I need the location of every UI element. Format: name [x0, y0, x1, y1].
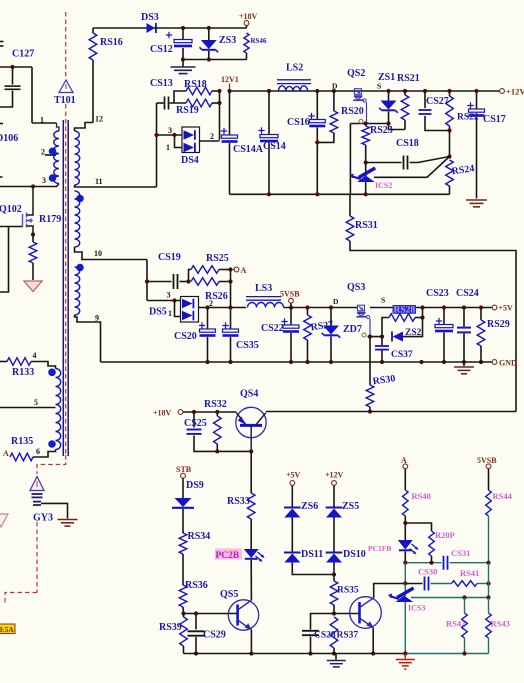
node junction [486, 595, 490, 599]
capacitor CS14A [221, 91, 264, 194]
capacitor CS27 [419, 91, 450, 131]
wire ref ICS3 [411, 597, 489, 599]
capacitor CS23 [426, 288, 453, 362]
capacitor CS37 [375, 337, 413, 362]
ground [466, 200, 487, 207]
svg-text:CS29: CS29 [203, 630, 226, 641]
resistor RS20 [317, 91, 363, 142]
isolation dashed [37, 455, 66, 474]
capacitor CS25 [184, 412, 251, 451]
svg-text:RS34: RS34 [188, 531, 211, 542]
node junction [368, 409, 372, 413]
svg-text:CS37: CS37 [391, 350, 413, 360]
capacitor C127 [0, 49, 34, 108]
capacitor CS29 [184, 614, 238, 654]
svg-text:T101: T101 [54, 95, 76, 106]
node junction [364, 192, 368, 196]
resistor RS46 [244, 33, 267, 60]
svg-text:CS24: CS24 [456, 288, 479, 299]
capacitor CS22 [261, 308, 299, 363]
pin 11 wire [75, 177, 157, 187]
svg-text:RS23: RS23 [370, 125, 393, 136]
node junction [194, 651, 198, 655]
svg-text:STB: STB [176, 465, 192, 474]
secondary winding 10-9 [75, 267, 80, 315]
svg-text:CS17: CS17 [483, 114, 506, 125]
wire collector run [266, 411, 516, 413]
resistor RS37 [330, 617, 358, 654]
node junction [228, 360, 232, 364]
wire [404, 563, 406, 584]
shunt reg ICS2 [350, 163, 393, 195]
svg-text:ICS2: ICS2 [375, 181, 392, 190]
svg-text:+18V: +18V [239, 12, 258, 21]
svg-text:+12V: +12V [506, 87, 524, 97]
label 12V1 [221, 75, 239, 91]
node junction [462, 360, 466, 364]
resistor R133 [0, 358, 34, 378]
winding dot [76, 195, 84, 203]
node junction [228, 305, 232, 309]
terminal +18V [153, 409, 237, 418]
svg-text:S: S [381, 296, 385, 305]
wire pin10 drop [146, 260, 148, 301]
node junction [267, 192, 271, 196]
node junction [447, 154, 451, 158]
wire [405, 562, 441, 564]
svg-text:R133: R133 [12, 367, 34, 378]
svg-text:RS20: RS20 [341, 106, 364, 117]
node junction [31, 184, 35, 188]
svg-text:DS9: DS9 [186, 480, 204, 491]
node junction [442, 305, 446, 309]
node junction [305, 305, 309, 309]
node junction [462, 595, 466, 599]
node junction [289, 360, 293, 364]
diode DS11 [284, 518, 334, 575]
pin 6 wire [33, 447, 56, 457]
svg-text:LS2: LS2 [286, 63, 303, 74]
svg-text:0.5A: 0.5A [0, 625, 14, 634]
diode DS5 [147, 291, 199, 323]
svg-text:11: 11 [95, 177, 103, 186]
capacitor CS18 [366, 138, 450, 170]
resistor RS19 [170, 99, 220, 116]
resistor RS24 [446, 160, 475, 194]
svg-text:D106: D106 [0, 133, 18, 144]
svg-text:ZS3: ZS3 [219, 35, 236, 46]
svg-text:RS36: RS36 [185, 580, 208, 591]
svg-text:2: 2 [210, 132, 214, 141]
wire gate QS3 [369, 319, 371, 337]
svg-text:12V1: 12V1 [221, 75, 239, 84]
node junction [172, 133, 176, 137]
wire G node [350, 123, 388, 125]
capacitor CS28 [302, 614, 336, 654]
terminal STB [176, 465, 192, 478]
node junction [368, 335, 372, 339]
svg-text:RS29: RS29 [487, 319, 510, 330]
resistor RS32 [204, 399, 227, 451]
svg-text:5VSB: 5VSB [280, 290, 300, 299]
primary ground partial [0, 514, 8, 527]
diode DS10 [326, 518, 366, 575]
diode DS3 [141, 12, 159, 33]
resistor RS42 [446, 598, 467, 654]
isolation dashed line core [65, 104, 67, 455]
svg-text:CS19: CS19 [158, 252, 181, 263]
svg-text:PC1FB: PC1FB [368, 544, 391, 553]
svg-text:CS23: CS23 [426, 288, 449, 299]
inductor LS2 [277, 63, 311, 92]
node junction [267, 89, 271, 93]
svg-text:LS3: LS3 [255, 283, 272, 294]
resistor RS26 [191, 270, 231, 303]
svg-text:2: 2 [209, 299, 213, 308]
node junction [154, 133, 158, 137]
node junction [479, 305, 483, 309]
svg-text:RS24: RS24 [451, 163, 475, 177]
ground [171, 60, 196, 74]
svg-text:RS22: RS22 [457, 113, 479, 123]
node junction [486, 561, 490, 565]
node junction [31, 232, 35, 236]
fuse label 0.5A [0, 624, 15, 634]
svg-text:CS25: CS25 [184, 418, 207, 429]
node junction [386, 121, 390, 125]
wire +5V rail [370, 307, 495, 309]
primary ground [24, 281, 42, 292]
transistor QS5 [220, 589, 259, 630]
zener ZD7 [322, 308, 362, 363]
wire gnd rail 5V [101, 361, 495, 363]
node junction [474, 89, 478, 93]
node junction [205, 305, 209, 309]
isolation dashed [36, 522, 38, 593]
resistor RS16 [89, 28, 123, 123]
svg-text:DS11: DS11 [301, 549, 323, 560]
wire [230, 282, 232, 308]
svg-text:CS35: CS35 [236, 340, 259, 351]
svg-text:A: A [241, 266, 247, 275]
wire [154, 27, 247, 29]
resistor RS40 [403, 469, 431, 540]
wire stub [0, 123, 3, 125]
terminal A [401, 456, 408, 469]
node junction [332, 89, 336, 93]
svg-text:RS35: RS35 [337, 586, 359, 596]
node junction [207, 57, 211, 61]
terminal A [233, 266, 247, 275]
terminal +18V [239, 12, 258, 28]
resistor RS34 [179, 531, 210, 585]
svg-text:3: 3 [167, 291, 171, 300]
diode DS9 [172, 478, 204, 533]
node junction [186, 279, 190, 283]
node junction [420, 315, 424, 319]
svg-text:Q102: Q102 [0, 204, 22, 215]
pin 12 wire [75, 115, 104, 132]
resistor RS23 [362, 124, 393, 163]
capacitor CS35 [222, 308, 258, 363]
zener ZS3 [200, 28, 237, 60]
ground [327, 654, 346, 667]
capacitor CS24 [456, 288, 479, 362]
terminal G [362, 333, 366, 337]
svg-text:C127: C127 [12, 49, 34, 60]
pin 4 wire [31, 351, 56, 369]
svg-text:RS28: RS28 [394, 305, 416, 315]
node junction [403, 521, 407, 525]
svg-text:4: 4 [33, 351, 37, 360]
node junction [228, 267, 232, 271]
secondary winding 12-11 [75, 131, 80, 185]
svg-text:1: 1 [168, 309, 172, 318]
resistor RS41 [452, 568, 489, 586]
capacitor CS16 [287, 91, 325, 194]
resistor RS22 [446, 91, 479, 157]
optocoupler PC1FB [368, 540, 419, 563]
svg-text:DS3: DS3 [141, 12, 159, 23]
svg-text:DS4: DS4 [181, 155, 199, 166]
wire 12V rail [230, 90, 502, 92]
resistor R135 [3, 436, 33, 461]
svg-text:RS40: RS40 [412, 491, 431, 501]
svg-text:GND: GND [499, 359, 517, 368]
winding dot [48, 369, 56, 377]
wire ref [374, 157, 450, 178]
capacitor CS17 [467, 91, 505, 199]
svg-text:+12V: +12V [325, 471, 344, 480]
node junction [181, 57, 185, 61]
svg-text:RS33: RS33 [227, 496, 250, 507]
svg-text:CS14A: CS14A [233, 144, 264, 155]
wire stub [0, 176, 3, 178]
transistor Q102 [0, 187, 33, 235]
wire stub [0, 42, 4, 47]
resistor RS28 [382, 305, 423, 337]
node junction [172, 298, 176, 302]
svg-text:CS13: CS13 [150, 78, 173, 89]
spark gap GY3 [30, 477, 53, 524]
node junction [429, 561, 433, 565]
svg-text:QS4: QS4 [240, 389, 258, 400]
ground [396, 654, 415, 670]
wire gnd rail 12V [230, 193, 450, 195]
pin 3 wire [0, 176, 59, 187]
svg-text:D: D [332, 82, 338, 91]
node junction [329, 360, 333, 364]
node junction [315, 89, 319, 93]
resistor RS27 [304, 308, 334, 363]
capacitor CS19 [147, 252, 189, 289]
terminal 5VSB [477, 456, 497, 469]
svg-text:R20P: R20P [435, 530, 455, 540]
svg-text:CS31: CS31 [451, 548, 470, 558]
svg-text:12: 12 [95, 115, 103, 124]
inductor LS3 [246, 283, 284, 308]
node junction [308, 651, 312, 655]
transistor QS6 [350, 597, 382, 629]
svg-text:ZS6: ZS6 [301, 501, 318, 512]
svg-text:RS25: RS25 [206, 253, 229, 264]
node junction [486, 581, 490, 585]
node junction [305, 360, 309, 364]
node junction [380, 360, 384, 364]
svg-text:RS16: RS16 [100, 37, 123, 48]
node junction [403, 651, 407, 655]
svg-text:CS18: CS18 [396, 138, 419, 149]
optocoupler PC2B [215, 549, 265, 601]
svg-text:QS2: QS2 [347, 68, 365, 79]
node junction [249, 651, 253, 655]
svg-text:R135: R135 [11, 436, 33, 447]
svg-text:6: 6 [36, 447, 40, 456]
secondary winding 11-10 [75, 191, 80, 247]
svg-text:RS41: RS41 [460, 568, 479, 578]
terminal GND [492, 359, 517, 368]
svg-text:PC2B: PC2B [216, 551, 240, 561]
svg-text:ZS5: ZS5 [342, 501, 359, 512]
node junction [423, 89, 427, 93]
wire [349, 124, 351, 195]
wire [0, 66, 32, 68]
node junction [192, 410, 196, 414]
node junction [403, 581, 407, 585]
zener ZS5 [326, 486, 360, 518]
isolation dashed line [65, 12, 67, 79]
label QS4 [240, 389, 258, 400]
winding dot [76, 264, 84, 272]
mosfet QS2 [332, 68, 381, 102]
wire gate [0, 226, 23, 228]
mosfet QS3 [333, 282, 385, 319]
resistor RS21 [397, 73, 420, 130]
wire [250, 630, 252, 654]
wire [372, 628, 374, 654]
transistor QS4 [236, 407, 266, 451]
diode DS4 [157, 126, 200, 166]
node junction [371, 651, 375, 655]
pin 10 wire [75, 247, 148, 260]
svg-text:3: 3 [42, 176, 46, 185]
wire [284, 307, 358, 309]
isolation dashed [5, 593, 37, 605]
wire pin11 riser [156, 103, 158, 187]
resistor R179 [29, 214, 61, 280]
wire [93, 27, 147, 29]
svg-text:CS12: CS12 [150, 44, 173, 55]
svg-text:+5V: +5V [499, 304, 514, 313]
resistor RS39 [159, 614, 187, 654]
terminal +12V [325, 471, 344, 486]
capacitor CS14 [258, 91, 285, 194]
zener ZS1 [378, 72, 405, 130]
svg-text:3: 3 [168, 126, 172, 135]
svg-text:CS27: CS27 [426, 96, 449, 107]
pin 2 tap [41, 148, 56, 157]
node junction [315, 192, 319, 196]
terminal +12V [500, 87, 524, 97]
node junction [462, 305, 466, 309]
label D106 [0, 133, 18, 144]
svg-text:RS18: RS18 [184, 79, 207, 90]
node junction [380, 335, 384, 339]
svg-text:+18V: +18V [153, 409, 172, 418]
resistor RS44 [486, 469, 513, 563]
resistor RS31 [346, 194, 516, 411]
node junction [289, 305, 293, 309]
svg-text:CS16: CS16 [287, 117, 310, 128]
svg-text:ZS1: ZS1 [378, 72, 395, 83]
svg-text:RS30: RS30 [372, 373, 396, 387]
terminal 5VSB [280, 290, 300, 308]
svg-text:R179: R179 [39, 214, 61, 225]
wire [405, 653, 488, 655]
node junction [217, 101, 221, 105]
capacitor CS31 [444, 548, 489, 570]
terminal +5V [492, 304, 513, 313]
svg-text:RS43: RS43 [491, 619, 510, 629]
svg-text:CS14: CS14 [263, 141, 286, 152]
wire gate QS2 [366, 103, 368, 124]
primary winding 4-6 [56, 369, 61, 450]
svg-text:RS21: RS21 [397, 73, 420, 84]
svg-text:5: 5 [34, 398, 38, 407]
wire [183, 59, 247, 61]
capacitor CS12 [150, 28, 192, 60]
node junction [215, 449, 219, 453]
svg-text:RS31: RS31 [355, 220, 378, 231]
resistor RS43 [486, 598, 510, 654]
node junction [403, 561, 407, 565]
wire pin2 riser [219, 91, 221, 140]
svg-text:CS30: CS30 [418, 567, 437, 577]
svg-text:D: D [333, 297, 339, 306]
transformer core [63, 120, 68, 456]
wire bottom rail [184, 653, 406, 655]
svg-text:RS39: RS39 [159, 622, 182, 633]
node junction [145, 279, 149, 283]
resistor RS35 [330, 575, 359, 614]
svg-text:RS44: RS44 [493, 491, 513, 501]
node junction [442, 360, 446, 364]
winding dot [49, 174, 57, 182]
ground [454, 362, 474, 374]
wire [41, 503, 68, 518]
svg-text:1: 1 [166, 143, 170, 152]
svg-text:RS46: RS46 [251, 37, 267, 45]
node junction [181, 611, 185, 615]
svg-text:RS19: RS19 [176, 105, 199, 116]
node junction [329, 305, 333, 309]
svg-text:ZD7: ZD7 [343, 324, 362, 335]
svg-text:CS22: CS22 [261, 323, 284, 334]
winding dot [48, 440, 56, 448]
zener ZS6 [284, 486, 318, 518]
node junction [386, 89, 390, 93]
node junction [332, 572, 336, 576]
svg-text:5VSB: 5VSB [477, 456, 497, 465]
pin 5 wire [0, 398, 56, 408]
wire [0, 227, 9, 293]
shunt reg ICS3 [388, 584, 425, 654]
svg-text:+5V: +5V [286, 471, 301, 480]
svg-text:1: 1 [40, 116, 44, 125]
wire pin2 [200, 132, 220, 141]
wire G node QS3 [368, 336, 385, 338]
svg-text:RS32: RS32 [204, 399, 227, 410]
